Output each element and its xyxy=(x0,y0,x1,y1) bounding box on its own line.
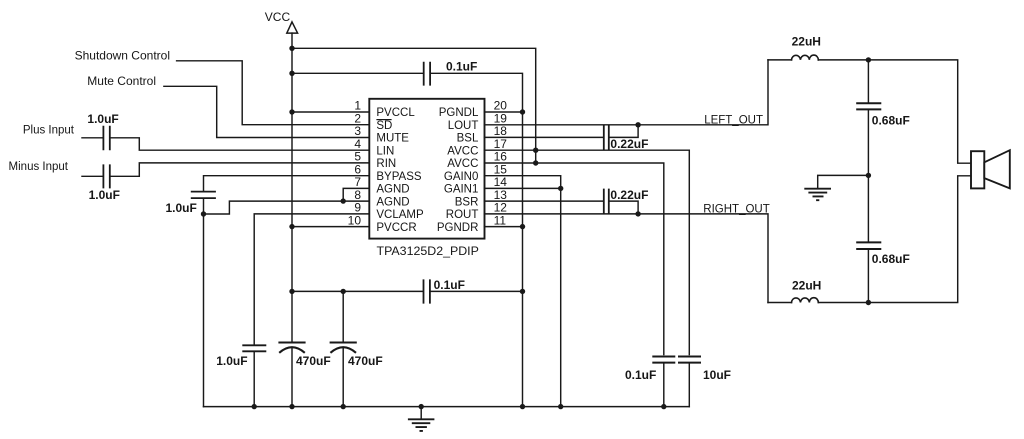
capacitor C 0.68uF top xyxy=(856,103,881,109)
node AGND junction pin7 pin8 xyxy=(341,198,346,203)
wire pin16 AVCC to 0.1uF xyxy=(485,163,664,355)
svg-text:1.0uF: 1.0uF xyxy=(87,112,118,126)
wire bootstrap right cap to ROUT xyxy=(610,201,638,214)
wire 0.68uF top lower stem xyxy=(867,110,869,175)
svg-text:GAIN1: GAIN1 xyxy=(444,184,479,196)
capacitor C top 0.1uF xyxy=(424,62,430,86)
wire pin20 PGNDL xyxy=(485,111,523,113)
capacitor C vclamp 1.0uF xyxy=(242,345,266,351)
node AVCC pin16 junction xyxy=(533,160,538,165)
svg-text:TPA3125D2_PDIP: TPA3125D2_PDIP xyxy=(377,244,479,258)
svg-text:0.1uF: 0.1uF xyxy=(625,368,656,382)
wire pin12 ROUT to RIGHT_OUT xyxy=(485,214,769,303)
wire bottom 0.1uF right segment xyxy=(431,290,523,292)
node GAIN junction xyxy=(558,186,563,191)
wire mid ground branch xyxy=(818,175,869,188)
wire 0.68uF top upper stem xyxy=(867,60,869,103)
svg-text:RIN: RIN xyxy=(376,158,396,170)
svg-text:Plus Input: Plus Input xyxy=(23,125,75,137)
node top LC junction xyxy=(866,57,871,62)
svg-text:RIGHT_OUT: RIGHT_OUT xyxy=(703,204,769,216)
wire pin18 BSL to bootstrap cap xyxy=(485,136,603,138)
svg-text:22uH: 22uH xyxy=(792,35,821,49)
wire pin1 PVCCL to VCC xyxy=(292,111,369,113)
wire plus input left xyxy=(82,137,103,139)
ground symbol bottom xyxy=(408,407,435,431)
wire 10uF lower stem xyxy=(688,364,690,407)
capacitor C 0.68uF bottom xyxy=(856,242,881,249)
node PGND rail junction xyxy=(520,404,525,409)
wire pin19 LOUT to LEFT_OUT xyxy=(485,60,769,125)
svg-text:VCLAMP: VCLAMP xyxy=(376,209,424,221)
svg-text:PVCCR: PVCCR xyxy=(376,222,416,234)
node vclamp rail junction xyxy=(252,404,257,409)
wire 0.68uF bottom upper stem xyxy=(867,175,869,241)
wire pin9 VCLAMP to cap xyxy=(254,214,369,344)
svg-text:1.0uF: 1.0uF xyxy=(89,188,120,202)
node VCC pin1 junction xyxy=(289,109,294,114)
wire pin17 AVCC to 10uF xyxy=(485,150,690,354)
wire top LC rail xyxy=(768,60,971,163)
wire pin14 GAIN1 xyxy=(485,187,561,189)
capacitor C 470uF no1 xyxy=(278,343,305,353)
wire vclamp cap to bottom rail xyxy=(253,352,255,406)
wire bootstrap left cap to LOUT xyxy=(610,125,638,138)
wire pin10 PVCCR to VCC xyxy=(292,226,369,228)
node VCC top rail junction xyxy=(289,46,294,51)
node mid ground junction xyxy=(866,173,871,178)
wire minus input to pin5 RIN xyxy=(111,163,370,176)
svg-text:LIN: LIN xyxy=(376,145,394,157)
svg-text:470uF: 470uF xyxy=(348,354,383,368)
wire minus input left xyxy=(82,175,103,177)
svg-text:LOUT: LOUT xyxy=(448,120,479,132)
speaker SPK1 xyxy=(971,150,1010,188)
pin name SD with overline xyxy=(376,120,392,132)
svg-text:LEFT_OUT: LEFT_OUT xyxy=(704,114,763,126)
wire shutdown to pin2 SD xyxy=(177,61,370,125)
node pin11 PGND junction xyxy=(520,224,525,229)
node GAIN rail junction xyxy=(558,404,563,409)
op-amp U1 TPA3125D2 IC body xyxy=(369,99,484,239)
capacitor C bootstrap right 0.22uF xyxy=(604,189,609,214)
svg-text:PGNDR: PGNDR xyxy=(437,222,479,234)
ground symbol mid xyxy=(804,189,831,201)
svg-text:0.22uF: 0.22uF xyxy=(610,188,648,202)
svg-text:AGND: AGND xyxy=(376,184,409,196)
svg-text:BYPASS: BYPASS xyxy=(376,171,421,183)
capacitor C bypass 1.0uF xyxy=(191,192,216,199)
node VCC pin10 junction xyxy=(289,224,294,229)
wire top 0.1uF left segment xyxy=(292,72,423,74)
node 470uF no2 rail junction xyxy=(341,404,346,409)
node AVCC pin17 junction xyxy=(533,148,538,153)
svg-text:Mute Control: Mute Control xyxy=(87,74,156,88)
node 470uF no1 rail junction xyxy=(289,404,294,409)
svg-text:PGNDL: PGNDL xyxy=(439,107,479,119)
node 470uF no2 top junction xyxy=(341,289,346,294)
node ROUT bootstrap junction xyxy=(635,211,640,216)
node bypass AGND junction xyxy=(201,211,206,216)
wire mute to pin3 MUTE xyxy=(164,86,369,137)
wire pin15 GAIN0 down to rail xyxy=(485,176,561,407)
svg-text:22uH: 22uH xyxy=(792,279,821,293)
svg-text:1.0uF: 1.0uF xyxy=(166,201,197,215)
svg-text:0.1uF: 0.1uF xyxy=(446,60,477,74)
svg-text:Minus Input: Minus Input xyxy=(9,161,69,173)
capacitor C 470uF no2 xyxy=(330,343,357,353)
svg-text:10: 10 xyxy=(348,213,362,227)
svg-text:AVCC: AVCC xyxy=(447,158,478,170)
wire bottom ground rail xyxy=(204,406,690,408)
capacitor C bottom 0.1uF xyxy=(424,279,430,303)
wire plus input to pin4 LIN xyxy=(111,138,370,150)
node VCC bottom 0.1uF junction xyxy=(289,289,294,294)
node rail 0.1uF junction xyxy=(661,404,666,409)
node PGND bottom 0.1uF junction xyxy=(520,289,525,294)
wire 0.68uF bottom lower stem xyxy=(867,250,869,303)
wire top AVCC rail xyxy=(292,48,536,163)
wire pin7 AGND xyxy=(343,188,369,201)
svg-text:PVCCL: PVCCL xyxy=(376,107,415,119)
capacitor C rail 0.1uF xyxy=(652,357,675,363)
svg-text:1.0uF: 1.0uF xyxy=(216,354,247,368)
svg-text:0.68uF: 0.68uF xyxy=(872,114,910,128)
capacitor C bootstrap left 0.22uF xyxy=(604,125,609,150)
svg-text:0.1uF: 0.1uF xyxy=(434,278,465,292)
inductor L1 22uH top xyxy=(792,55,819,60)
svg-text:BSR: BSR xyxy=(455,196,479,208)
svg-text:0.68uF: 0.68uF xyxy=(872,252,910,266)
wire VCC vertical rail upper xyxy=(291,33,293,341)
wire pin6 BYPASS to cap xyxy=(204,176,370,191)
inductor L2 22uH bottom xyxy=(792,298,819,303)
capacitor C 10uF xyxy=(678,357,701,363)
wire pin13 BSR to bootstrap cap xyxy=(485,200,603,202)
svg-text:Shutdown Control: Shutdown Control xyxy=(75,49,170,63)
svg-text:MUTE: MUTE xyxy=(376,133,409,145)
svg-text:0.22uF: 0.22uF xyxy=(610,137,648,151)
wire pin8 AGND to bypass line xyxy=(204,201,370,214)
wire bottom 0.1uF left segment xyxy=(292,290,423,292)
svg-text:ROUT: ROUT xyxy=(446,209,479,221)
svg-text:11: 11 xyxy=(494,213,507,227)
wire bypass cap to bottom rail xyxy=(203,199,205,407)
wire bottom LC rail xyxy=(768,176,971,303)
wire pin11 PGNDR xyxy=(485,226,523,228)
wire 470uF no2 upper stem xyxy=(342,291,344,341)
svg-text:AGND: AGND xyxy=(376,196,409,208)
svg-text:AVCC: AVCC xyxy=(447,145,478,157)
svg-text:470uF: 470uF xyxy=(296,354,331,368)
svg-text:SD: SD xyxy=(376,120,392,132)
wire 470uF no2 lower stem xyxy=(342,348,344,407)
capacitor C plus input 1.0uF xyxy=(103,126,109,151)
svg-text:VCC: VCC xyxy=(265,10,291,24)
wire rail 0.1uF lower stem xyxy=(663,364,665,407)
svg-text:10uF: 10uF xyxy=(703,368,731,382)
node bottom LC junction xyxy=(866,300,871,305)
wire top 0.1uF right segment + PGND vertical xyxy=(431,73,523,406)
node ground rail junction xyxy=(419,404,424,409)
node LOUT bootstrap junction xyxy=(635,122,640,127)
node pin20 PGND junction xyxy=(520,109,525,114)
capacitor C minus input 1.0uF xyxy=(103,164,109,188)
svg-text:GAIN0: GAIN0 xyxy=(444,171,479,183)
svg-text:BSL: BSL xyxy=(457,133,479,145)
wire VCC vertical rail lower xyxy=(291,348,293,407)
power symbol VCC xyxy=(265,10,298,33)
node VCC 0.1uF junction xyxy=(289,71,294,76)
